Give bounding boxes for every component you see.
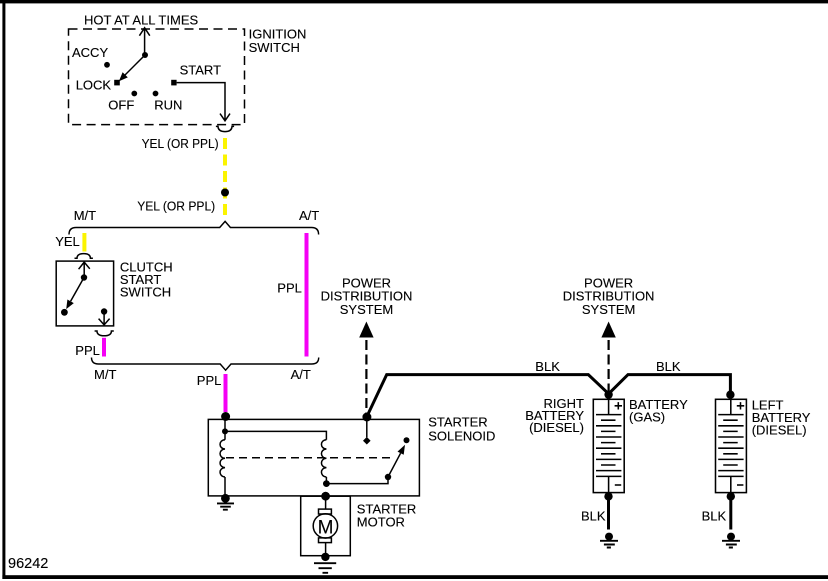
junction coil2 bottom — [323, 480, 330, 487]
svg-text:SYSTEM: SYSTEM — [340, 302, 393, 317]
wire YEL M/T branch — [82, 233, 86, 252]
battery gas minus — [615, 484, 621, 486]
connector clutch output cup — [95, 331, 114, 336]
junction battery left bottom — [727, 492, 735, 500]
wire PPL A/T branch — [305, 233, 309, 357]
wire coil2 bottom — [325, 477, 327, 484]
splice brace top — [69, 221, 319, 234]
clutch start switch box — [56, 261, 113, 326]
coil hold-in winding — [321, 440, 326, 477]
wire to contact arm — [326, 478, 388, 484]
ground solenoid — [217, 503, 234, 509]
battery left diesel box — [716, 399, 747, 492]
wire coil1 to box bottom junction — [221, 494, 230, 503]
wire START output — [177, 83, 230, 121]
junction battery left top — [726, 391, 734, 399]
clutch switch terminal arrow up — [79, 262, 90, 277]
junction PPL at solenoid — [221, 412, 230, 421]
svg-text:OFF: OFF — [108, 98, 134, 113]
battery left cells — [718, 399, 743, 492]
wire motor to ground — [325, 543, 327, 556]
clutch switch right contact — [101, 308, 107, 314]
clutch switch output arrow down — [99, 312, 110, 325]
wire motor feed — [325, 496, 327, 509]
svg-text:HOT AT ALL TIMES: HOT AT ALL TIMES — [84, 12, 198, 27]
wire branch to hold-in coil — [225, 431, 326, 439]
svg-text:YEL: YEL — [55, 234, 80, 249]
junction battery gas top — [604, 390, 612, 398]
svg-text:RUN: RUN — [154, 98, 182, 113]
wire BLK battery gas to ground — [607, 496, 610, 529]
battery gas cells — [596, 399, 621, 492]
border frame top — [0, 0, 828, 3]
junction on yellow wire — [221, 189, 229, 197]
svg-text:M/T: M/T — [74, 208, 96, 223]
wire BLK battery left to ground — [729, 496, 732, 529]
merge brace bottom — [92, 358, 319, 371]
mechanical link dashed — [226, 457, 394, 459]
ground battery gas — [605, 533, 613, 541]
connector ignition output cup — [216, 126, 234, 131]
ground starter motor — [314, 563, 336, 573]
svg-text:SWITCH: SWITCH — [249, 40, 300, 55]
battery left minus — [737, 484, 743, 486]
solenoid fixed contact diamond — [363, 437, 371, 445]
ignition lever pivot — [142, 52, 148, 58]
svg-text:M: M — [318, 517, 334, 538]
ground battery left — [727, 533, 735, 541]
svg-text:PPL: PPL — [75, 343, 100, 358]
svg-text:SWITCH: SWITCH — [120, 284, 171, 299]
solenoid contact pivot — [385, 474, 391, 480]
svg-text:YEL (OR PPL): YEL (OR PPL) — [137, 199, 215, 214]
junction battery gas bottom — [604, 492, 612, 500]
clutch switch lower contact — [61, 309, 68, 316]
power distribution dashed arrow right — [601, 322, 615, 338]
svg-text:(DIESEL): (DIESEL) — [752, 423, 807, 438]
starter motor box — [301, 496, 351, 556]
svg-text:ACCY: ACCY — [72, 45, 108, 60]
svg-text:SYSTEM: SYSTEM — [582, 302, 635, 317]
ignition switch S1 dashed box — [69, 29, 245, 125]
svg-text:96242: 96242 — [8, 556, 48, 572]
junction solenoid output — [321, 492, 330, 501]
wire PPL to solenoid — [224, 374, 228, 412]
svg-text:YEL (OR PPL): YEL (OR PPL) — [142, 136, 219, 151]
battery gas plus — [615, 402, 622, 409]
motor brush bottom — [319, 538, 332, 543]
clutch switch lever — [71, 278, 84, 302]
svg-text:PPL: PPL — [277, 281, 302, 296]
junction coil branch — [222, 428, 228, 434]
wire BLK heavy from solenoid to batteries — [367, 375, 731, 417]
svg-text:MOTOR: MOTOR — [357, 514, 405, 529]
wire PPL below clutch — [102, 338, 106, 357]
ignition lever — [124, 55, 145, 76]
wire battery feed arrow up — [139, 28, 149, 55]
contact START — [171, 80, 176, 86]
svg-text:(GAS): (GAS) — [629, 409, 665, 424]
connector clutch switch top cap — [75, 254, 93, 259]
svg-text:LOCK: LOCK — [76, 78, 112, 93]
battery left plus — [737, 402, 744, 409]
wire BLK entry down — [366, 417, 368, 437]
coil pull-in winding — [220, 440, 225, 477]
contact OFF — [131, 91, 137, 97]
contact RUN — [153, 91, 159, 97]
svg-text:PPL: PPL — [197, 373, 222, 388]
svg-text:A/T: A/T — [299, 208, 319, 223]
contact ACCY — [104, 62, 110, 68]
starter solenoid box — [208, 419, 419, 496]
svg-text:M/T: M/T — [94, 367, 116, 382]
svg-text:BLK: BLK — [581, 508, 606, 523]
svg-text:(DIESEL): (DIESEL) — [529, 420, 584, 435]
solenoid contact blade — [388, 453, 401, 477]
contact LOCK — [114, 80, 120, 86]
svg-text:START: START — [180, 63, 221, 78]
svg-text:SOLENOID: SOLENOID — [428, 428, 495, 443]
svg-text:BLK: BLK — [656, 359, 681, 374]
wire YEL (OR PPL) dashed yellow — [223, 138, 227, 215]
motor circle M — [313, 514, 337, 538]
battery gas box — [593, 399, 624, 492]
solenoid fixed contact top — [404, 437, 410, 443]
junction motor ground — [321, 553, 329, 561]
svg-text:BLK: BLK — [535, 359, 560, 374]
svg-text:A/T: A/T — [291, 367, 311, 382]
power distribution dashed arrow left — [359, 322, 373, 338]
svg-text:BLK: BLK — [702, 508, 727, 523]
wire solenoid left vertical — [224, 417, 226, 497]
motor brush top — [319, 509, 332, 514]
clutch switch pivot dot — [81, 274, 87, 280]
junction BLK at solenoid — [362, 413, 371, 422]
